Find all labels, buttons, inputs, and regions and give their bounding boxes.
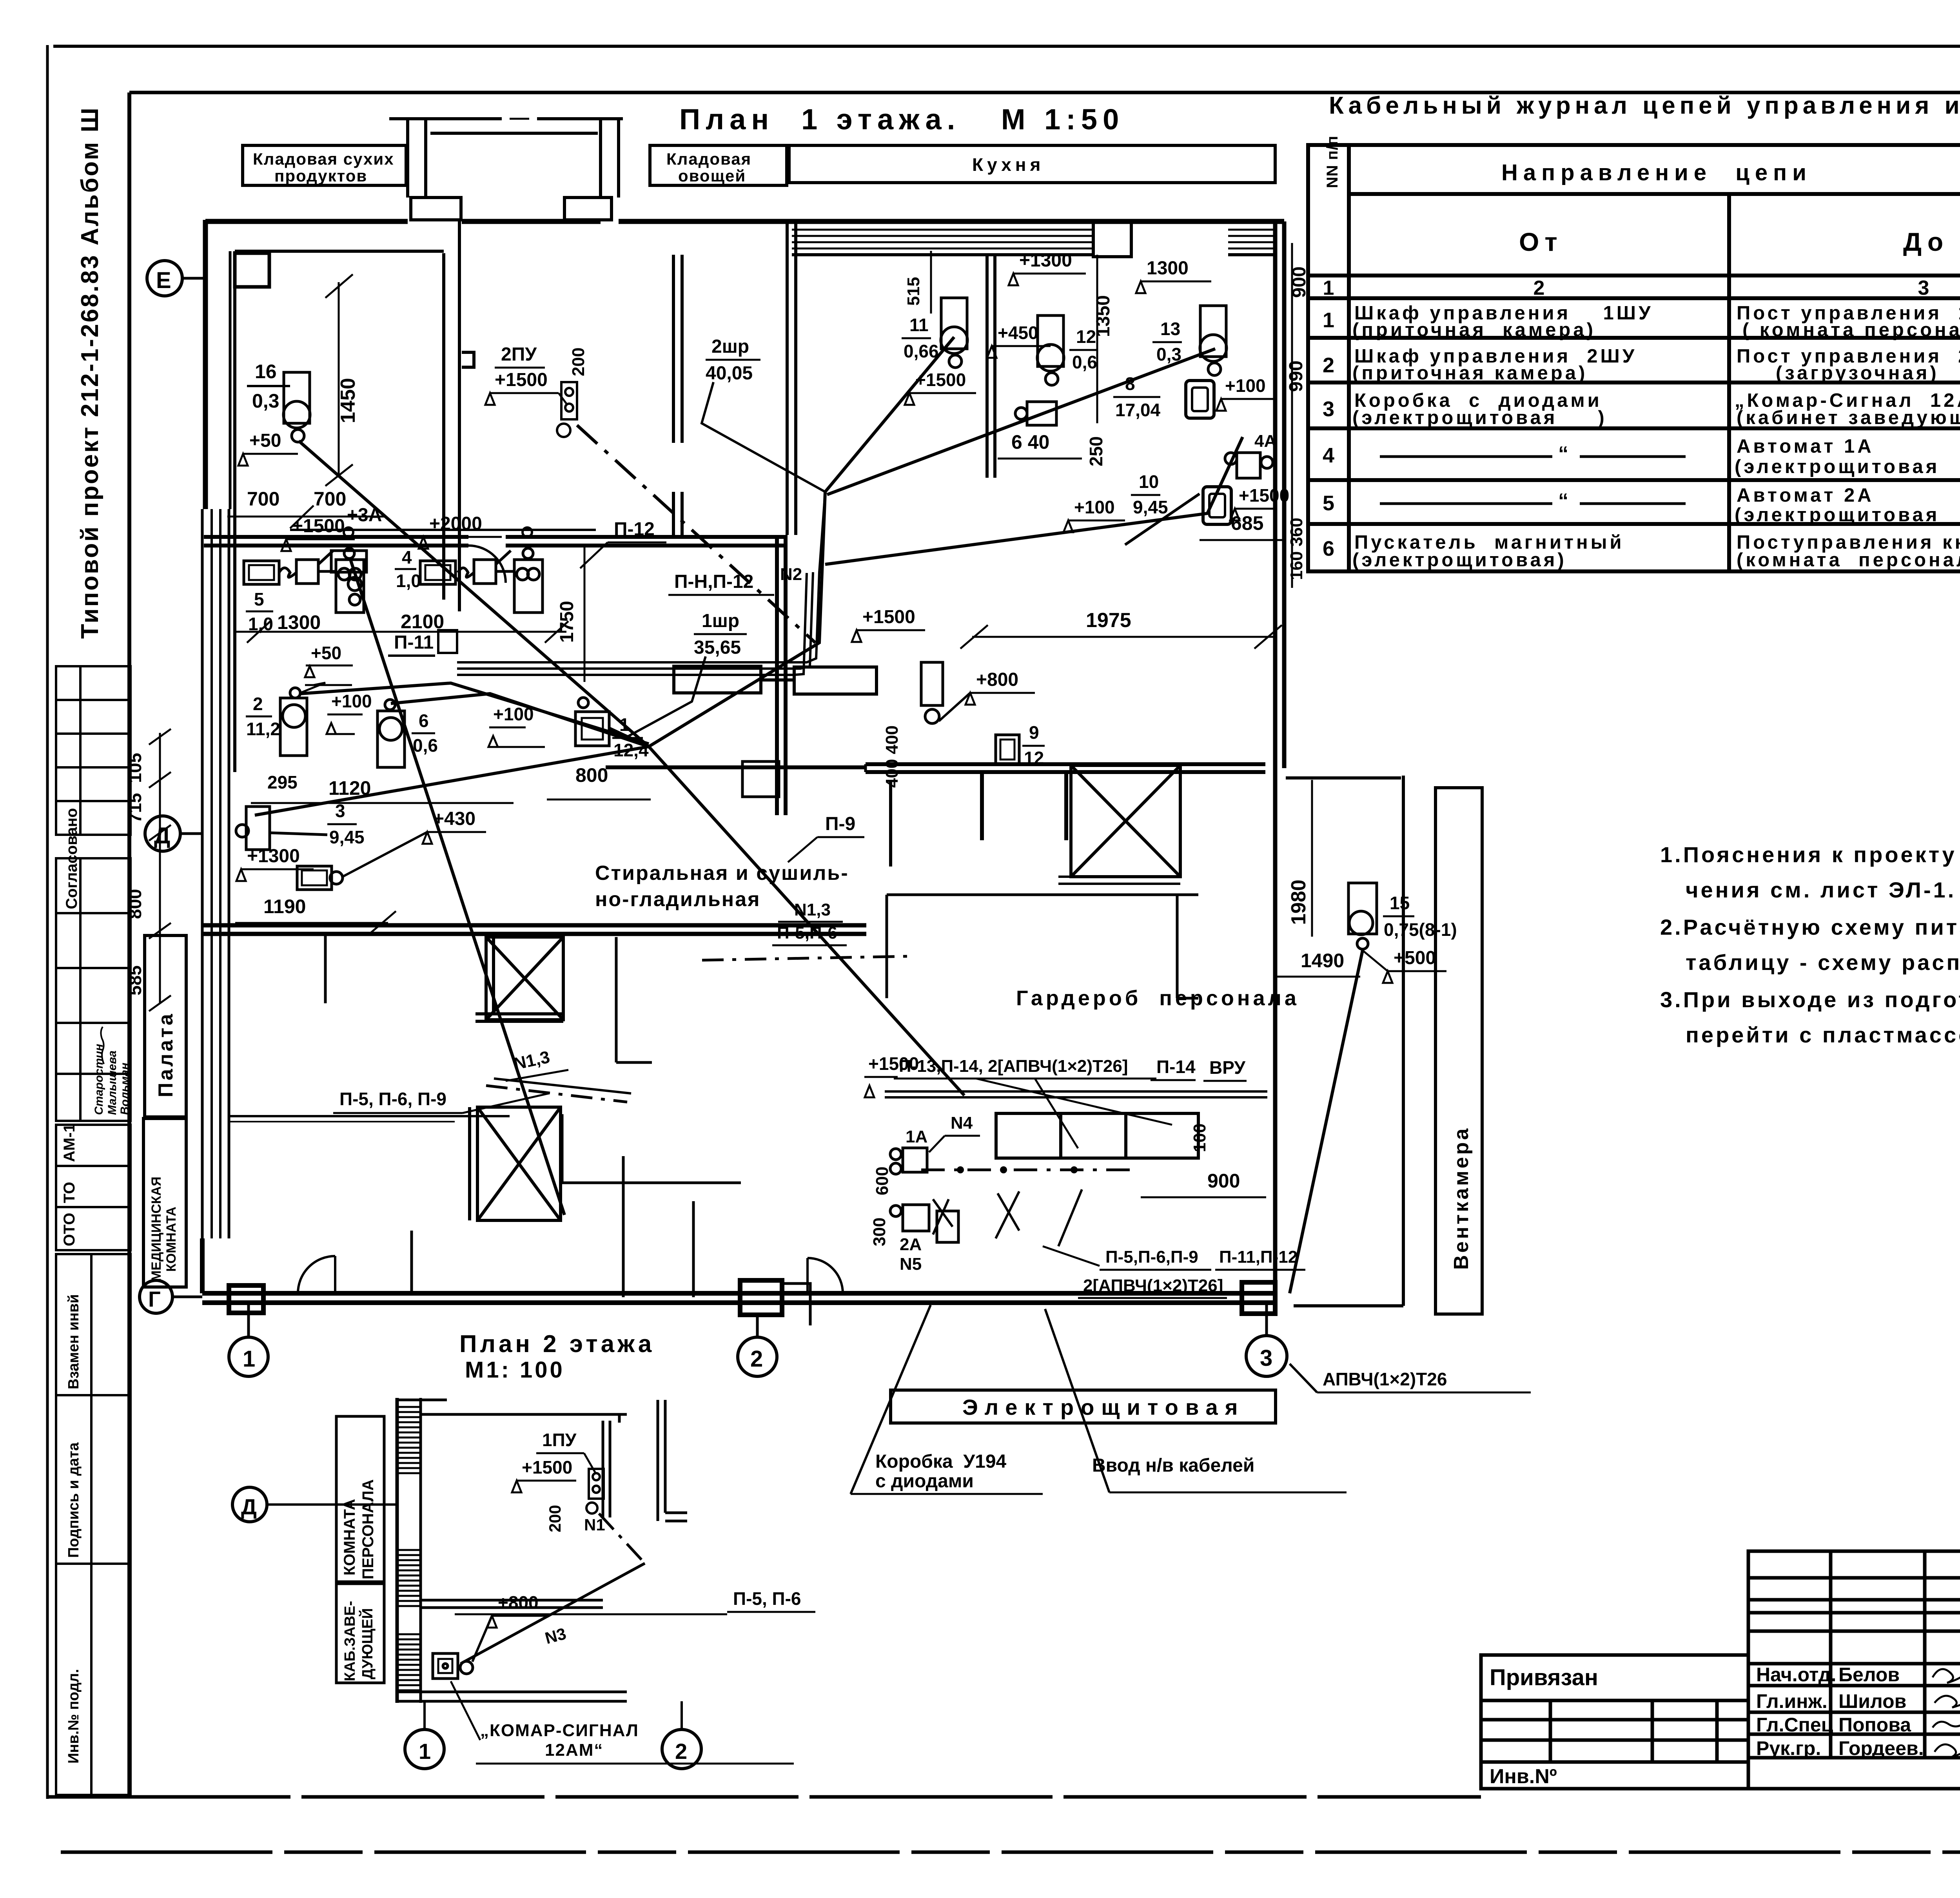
wall: стиральная room bottom wall (202, 925, 866, 934)
svg-text:800: 800 (125, 889, 145, 919)
svg-text:Д: Д (241, 1494, 257, 1519)
svg-text:П-11,П-12: П-11,П-12 (1219, 1247, 1298, 1267)
wire: bottom dashed trim line (61, 1851, 1960, 1854)
svg-text:+500: +500 (1394, 948, 1436, 968)
svg-text:+800: +800 (498, 1592, 539, 1613)
svg-text:(электрощитовая ): (электрощитовая ) (1735, 504, 1960, 526)
svg-text:ДУЮЩЕЙ: ДУЮЩЕЙ (358, 1608, 376, 1679)
svg-text:П-14: П-14 (1156, 1057, 1196, 1077)
socket device at 880 2215 (297, 866, 343, 890)
svg-text:Белов: Белов (1838, 1664, 1900, 1686)
label: table data rows (1352, 303, 1960, 571)
svg-text:400 400: 400 400 (882, 725, 902, 788)
svg-text:1,0: 1,0 (396, 571, 421, 591)
wire: cable from motor16 to junction (255, 441, 964, 1215)
svg-text:4А: 4А (1254, 431, 1276, 451)
node: grid circle 3 bottom (1246, 1336, 1287, 1376)
svg-text:Гл.Спец: Гл.Спец (1756, 1714, 1833, 1736)
svg-text:Рук.гр.: Рук.гр. (1756, 1737, 1821, 1759)
CABLE JOURNAL TABLE (1308, 92, 1960, 571)
label: room Палата (145, 935, 186, 1117)
svg-text:(электрощитовая): (электрощитовая) (1352, 549, 1567, 571)
svg-text:Коробка У194: Коробка У194 (875, 1451, 1007, 1472)
svg-text:585: 585 (125, 965, 145, 995)
svg-text:Гордеев.: Гордеев. (1838, 1737, 1924, 1759)
svg-text:2.Расчётную схему питающих с: 2.Расчётную схему питающих сетей и расче… (1660, 915, 1960, 939)
svg-text:0,6: 0,6 (413, 735, 438, 756)
label: sidebar handwriting (101, 1027, 104, 1064)
TITLE BLOCK (1481, 1551, 1960, 1821)
svg-text:12,4: 12,4 (613, 740, 649, 760)
svg-text:6 40: 6 40 (1011, 431, 1049, 453)
node: device 1ПУ (586, 1469, 604, 1514)
node: ventilation shaft X1 (475, 937, 563, 1021)
device 3/9,45 (236, 807, 270, 850)
svg-text:715 105: 715 105 (125, 753, 145, 823)
svg-text:П-5,П-6: П-5,П-6 (777, 923, 837, 943)
svg-text:700: 700 (247, 488, 279, 510)
svg-text:990: 990 (1286, 361, 1307, 392)
node: ventilation shaft X3 гардероб (1058, 765, 1180, 884)
svg-text:перейти с пластмассовых тру: перейти с пластмассовых труб на стальные… (1686, 1022, 1960, 1047)
wire: sidebar stamp boxes (56, 666, 131, 1795)
svg-text:АПВЧ(1×2)Т26: АПВЧ(1×2)Т26 (1323, 1369, 1447, 1389)
svg-text:700: 700 (314, 488, 346, 510)
svg-text:1.Пояснения к проекту и ус: 1.Пояснения к проекту и условные обозна- (1660, 842, 1960, 867)
wire: x marks on cable (933, 1189, 1082, 1246)
svg-text:1: 1 (619, 714, 630, 735)
svg-text:0,66: 0,66 (904, 341, 939, 361)
svg-text:2: 2 (253, 694, 263, 714)
node: device 2ПУ (557, 382, 577, 437)
wire: sheet left border (46, 45, 49, 1799)
svg-text:МЕДИЦИНСКАЯ: МЕДИЦИНСКАЯ (149, 1177, 164, 1282)
wall: room E inner lines (235, 221, 474, 772)
wire: dash dot bundle bottom left (486, 1086, 627, 1102)
wire: cable bundle П-11 (457, 492, 825, 675)
svg-text:Кладовая: Кладовая (666, 150, 751, 168)
svg-text:АМ-1: АМ-1 (61, 1124, 78, 1162)
svg-text:+3А: +3А (347, 505, 382, 526)
wall: bottom exterior wall (202, 1238, 1275, 1325)
гардероб: 15 device (1348, 883, 1377, 949)
svg-text:0,3: 0,3 (1156, 344, 1181, 364)
svg-text:П-11: П-11 (394, 632, 434, 653)
node: device 4A (1225, 453, 1273, 478)
wire: sheet top border (53, 45, 1960, 48)
svg-text:“: “ (1558, 442, 1568, 465)
node: grid circle 2 plan2 (662, 1729, 701, 1769)
node: Комар-Сигнал device (433, 1653, 473, 1679)
svg-text:5: 5 (254, 589, 264, 609)
node: device 1/12,4 (575, 698, 609, 746)
svg-text:1: 1 (1323, 308, 1334, 332)
svg-text:+1500: +1500 (495, 370, 548, 390)
svg-text:Кладовая сухих: Кладовая сухих (253, 150, 394, 168)
svg-text:+1300: +1300 (1019, 250, 1072, 271)
label: room box Кухня (789, 145, 1275, 183)
svg-text:3: 3 (1323, 397, 1334, 421)
svg-text:Гл.инж.: Гл.инж. (1756, 1690, 1828, 1712)
svg-text:200: 200 (546, 1505, 564, 1532)
svg-text:1А: 1А (906, 1127, 927, 1146)
svg-text:1: 1 (419, 1739, 431, 1764)
svg-text:NN п/п: NN п/п (1324, 136, 1341, 188)
svg-text:Типовой проект 212-1-268.83 А: Типовой проект 212-1-268.83 Альбом Ш (76, 106, 103, 639)
svg-text:От: От (1519, 227, 1563, 256)
svg-text:+1500: +1500 (915, 370, 966, 390)
motor 6/0,6 (377, 700, 405, 767)
svg-text:Нач.отд.: Нач.отд. (1756, 1664, 1836, 1686)
svg-text:1190: 1190 (263, 896, 306, 917)
svg-text:+800: +800 (976, 669, 1018, 690)
svg-text:13: 13 (1160, 319, 1180, 339)
svg-text:6: 6 (419, 711, 429, 731)
svg-text:1490: 1490 (1301, 950, 1344, 972)
svg-text:2[АПВЧ(1×2)Т26]: 2[АПВЧ(1×2)Т26] (1083, 1276, 1223, 1295)
wall: corridor lower wall right part (864, 764, 867, 772)
svg-text:5: 5 (1323, 491, 1334, 515)
svg-text:10: 10 (1139, 471, 1159, 492)
wire: right dimension line (1291, 243, 1293, 588)
svg-text:6: 6 (1323, 537, 1334, 560)
svg-text:35,65: 35,65 (694, 637, 741, 658)
svg-text:Инв.Nº: Инв.Nº (1490, 1765, 1557, 1788)
svg-text:(электрощитовая ): (электрощитовая ) (1735, 456, 1960, 477)
node: corridor duct boxes (674, 666, 891, 867)
svg-text:12АМ“: 12АМ“ (545, 1740, 603, 1760)
svg-text:+1300: +1300 (247, 846, 300, 867)
node: grid circle Д plan2 (232, 1487, 267, 1522)
wire: dash dot plan2 (599, 1514, 645, 1563)
wall: corridor walls (204, 535, 1265, 840)
label: signatures (1933, 1666, 1960, 1757)
wire: kitchen diagonal cables (825, 337, 1243, 564)
svg-text:ОТО: ОТО (61, 1213, 78, 1246)
svg-text:Кухня: Кухня (972, 154, 1044, 175)
svg-text:+1500: +1500 (868, 1053, 919, 1074)
svg-text:+1500: +1500 (1239, 485, 1289, 506)
svg-text:+1500: +1500 (862, 607, 915, 627)
wire: inner frame left vertical (127, 92, 131, 1797)
svg-text:3.При выходе из подготовки: 3.При выходе из подготовки пола следует (1660, 987, 1960, 1012)
label: Каб заведующей box (336, 1584, 384, 1683)
svg-text:Вольман: Вольман (118, 1063, 131, 1115)
svg-text:4: 4 (1323, 444, 1334, 467)
svg-text:1980: 1980 (1287, 879, 1310, 925)
svg-text:1120: 1120 (328, 777, 371, 799)
svg-text:(кабинет заведующен): (кабинет заведующен) (1737, 407, 1960, 428)
svg-text:+100: +100 (493, 704, 534, 724)
svg-text:15: 15 (1390, 893, 1410, 913)
svg-text:17,04: 17,04 (1115, 400, 1161, 420)
svg-text:П-5, П-6: П-5, П-6 (733, 1588, 801, 1609)
svg-text:Венткамера: Венткамера (1450, 1126, 1473, 1270)
wall: partial wall mid left (229, 1115, 510, 1117)
wire: dashdot cable to П-11 (577, 425, 815, 643)
svg-text:1шр: 1шр (702, 611, 739, 631)
rounded device 8/17,04 (1186, 381, 1214, 418)
svg-text:(загрузочная): (загрузочная) (1776, 363, 1939, 384)
svg-text:План 2 этажа: План 2 этажа (459, 1331, 655, 1358)
svg-text:План 1 этажа. М 1:50: План 1 этажа. М 1:50 (679, 103, 1124, 136)
PLAN 2 (232, 1331, 815, 1769)
svg-text:12: 12 (1076, 326, 1096, 347)
label: row 4 and 5 ditto dashes col2 (1380, 457, 1686, 504)
svg-text:ТО: ТО (61, 1182, 78, 1203)
svg-text:2А: 2А (900, 1235, 922, 1254)
node: grid circle E (147, 261, 182, 296)
rounded device 10/9,45 (1203, 487, 1231, 524)
wall: plan2 left wall hatched (397, 1398, 421, 1703)
svg-text:КОМНАТА: КОМНАТА (164, 1207, 179, 1272)
svg-text:600: 600 (873, 1167, 892, 1195)
svg-text:0,6: 0,6 (1072, 352, 1097, 372)
svg-text:N2: N2 (780, 565, 802, 584)
wall: main top exterior wall (205, 219, 1284, 224)
svg-text:1ПУ: 1ПУ (542, 1430, 577, 1450)
node: device 1A 2A (890, 1148, 958, 1242)
node: device 3A (331, 551, 367, 605)
svg-text:Электрощитовая: Электрощитовая (962, 1395, 1245, 1419)
svg-text:300: 300 (870, 1218, 889, 1246)
svg-text:2ПУ: 2ПУ (501, 344, 537, 365)
node: grid circle Д (145, 816, 180, 851)
svg-text:Ввод н/в кабелей: Ввод н/в кабелей (1092, 1455, 1254, 1476)
svg-text:Направление цепи: Направление цепи (1501, 160, 1812, 185)
svg-text:„КОМАР-СИГНАЛ: „КОМАР-СИГНАЛ (480, 1721, 639, 1740)
wall: plan2 top walls (397, 1400, 687, 1701)
svg-text:Согласовано: Согласовано (63, 808, 80, 909)
label: room box Кладовая сухих продуктов (243, 145, 406, 185)
NOTES (1660, 842, 1960, 1047)
svg-text:ВРУ: ВРУ (1209, 1057, 1246, 1078)
svg-text:Привязан: Привязан (1490, 1665, 1598, 1690)
label: dim 1980 vertical (1311, 780, 1313, 937)
svg-text:9: 9 (1029, 722, 1039, 743)
svg-text:800: 800 (575, 764, 608, 786)
svg-text:3: 3 (1918, 277, 1929, 299)
LEFT SIDEBAR (56, 106, 131, 1795)
svg-text:чения см. лист ЭЛ-1.: чения см. лист ЭЛ-1. (1686, 877, 1956, 902)
svg-text:+50: +50 (249, 430, 281, 451)
svg-text:2: 2 (675, 1739, 687, 1764)
svg-text:0,75(8-1): 0,75(8-1) (1384, 919, 1457, 940)
svg-text:Палата: Палата (154, 1012, 177, 1097)
label: table headers (1501, 160, 1960, 256)
svg-text:(приточная камера): (приточная камера) (1352, 319, 1596, 341)
svg-text:1975: 1975 (1086, 609, 1131, 632)
svg-text:Инв.№ подл.: Инв.№ подл. (65, 1669, 82, 1764)
svg-text:4: 4 (402, 547, 412, 567)
svg-text:“: “ (1558, 489, 1568, 512)
node: grid circle 1 bottom (229, 1337, 268, 1376)
svg-text:40,05: 40,05 (706, 363, 753, 384)
svg-text:2шр: 2шр (711, 336, 749, 357)
door arcs (298, 546, 843, 1293)
PLAN 1 (125, 103, 1531, 1494)
wall: right exterior wall (1275, 221, 1284, 1297)
label: dim 1450 vertical (338, 282, 340, 476)
svg-text:+450: +450 (998, 323, 1038, 343)
node: ВРУ cabinet (996, 1113, 1198, 1158)
svg-text:Старостин: Старостин (93, 1044, 105, 1115)
svg-text:0,3: 0,3 (252, 390, 279, 412)
label: room box Кладовая овощей (650, 145, 787, 185)
svg-text:овощей: овощей (678, 167, 746, 185)
svg-text:1300: 1300 (1147, 258, 1189, 279)
svg-text:(комната персонала): (комната персонала) (1737, 549, 1960, 571)
svg-text:+100: +100 (331, 691, 372, 711)
svg-text:8: 8 (1125, 373, 1135, 394)
motor 12/0,6 (1037, 315, 1064, 385)
svg-text:П-5,П-6,П-9: П-5,П-6,П-9 (1105, 1247, 1198, 1267)
svg-text:Кабельный журнал цепей управле: Кабельный журнал цепей управления и сигн… (1329, 92, 1960, 119)
svg-text:2: 2 (1323, 353, 1334, 377)
svg-text:П-12: П-12 (614, 519, 655, 540)
svg-text:900: 900 (1289, 266, 1310, 298)
svg-text:2: 2 (1534, 277, 1545, 299)
svg-text:100: 100 (1190, 1124, 1209, 1152)
wall: above ВРУ (885, 1090, 1267, 1093)
svg-text:+430: +430 (433, 809, 475, 829)
svg-text:ПЕРСОНАЛА: ПЕРСОНАЛА (359, 1479, 377, 1579)
svg-text:с диодами: с диодами (875, 1471, 974, 1492)
label: Комната персонала box (336, 1416, 384, 1582)
wall: гардероб partials (562, 895, 1198, 1297)
svg-text:До: До (1903, 227, 1949, 256)
wire: cable above corridor wall (290, 529, 596, 531)
washers row: socket + switch + dryer groups (244, 561, 279, 584)
motor 11/0,66 (941, 298, 967, 368)
svg-text:П-13,П-14, 2[АПВЧ(1×2)Т26]: П-13,П-14, 2[АПВЧ(1×2)Т26] (899, 1057, 1128, 1076)
wall: стиральная partial walls bottom (325, 934, 412, 1293)
svg-text:П-9: П-9 (825, 814, 855, 834)
node: grid circle 1 plan2 (405, 1729, 444, 1769)
svg-text:Взамен инвй: Взамен инвй (65, 1294, 82, 1389)
svg-text:(электрощитовая ): (электрощитовая ) (1352, 407, 1607, 428)
svg-text:М1: 100: М1: 100 (465, 1357, 565, 1383)
motor 16/0,3 (283, 372, 310, 442)
svg-text:( комната персонала): ( комната персонала) (1742, 319, 1960, 341)
svg-text:Е: Е (156, 268, 171, 293)
svg-text:Шилов: Шилов (1838, 1690, 1906, 1712)
label: room Медицинская комната (143, 1118, 186, 1287)
svg-text:N4: N4 (951, 1113, 973, 1133)
svg-text:16: 16 (255, 361, 277, 383)
svg-text:N5: N5 (900, 1254, 922, 1274)
svg-text:N1,3: N1,3 (794, 900, 831, 919)
svg-text:+1500: +1500 (522, 1457, 572, 1477)
svg-text:+100: +100 (1225, 375, 1266, 396)
svg-text:900: 900 (1207, 1170, 1240, 1192)
svg-text:9,45: 9,45 (329, 827, 365, 847)
svg-text:200: 200 (569, 348, 588, 376)
svg-text:11,2: 11,2 (246, 719, 280, 739)
svg-text:3: 3 (1260, 1345, 1272, 1371)
svg-text:продуктов: продуктов (274, 167, 367, 185)
node: device 9/12 (921, 662, 1019, 764)
label: Электрощитовая box (891, 1390, 1276, 1423)
svg-text:12: 12 (1024, 748, 1044, 768)
svg-text:295: 295 (267, 772, 298, 792)
wire: cable to 10 device (1125, 494, 1200, 545)
svg-text:Автомат 1А: Автомат 1А (1737, 436, 1874, 457)
svg-text:П-Н,П-12: П-Н,П-12 (674, 571, 753, 592)
svg-text:1: 1 (1323, 277, 1334, 299)
wall: left exterior wall (202, 220, 230, 1238)
label: column numbers row (1323, 277, 1960, 299)
wire: stair shaft top (389, 119, 623, 220)
svg-text:Автомат 2А: Автомат 2А (1737, 485, 1874, 506)
svg-text:250: 250 (1086, 436, 1106, 466)
svg-text:Г: Г (148, 1287, 161, 1311)
svg-text:но-гладильная: но-гладильная (595, 888, 760, 911)
node: ventilation shaft X2 (470, 1107, 561, 1220)
svg-text:+2000: +2000 (429, 513, 482, 534)
svg-text:1: 1 (243, 1346, 255, 1372)
wall: кладовая овощей dividers (673, 221, 995, 535)
svg-text:Подпись и дата: Подпись и дата (65, 1442, 82, 1558)
svg-text:515: 515 (904, 277, 923, 306)
svg-text:П-5, П-6, П-9: П-5, П-6, П-9 (339, 1089, 446, 1109)
node: grid circle Г (140, 1280, 172, 1313)
svg-text:Гардероб персонала: Гардероб персонала (1016, 986, 1299, 1010)
node: device box kitchen (1015, 402, 1056, 425)
wire: top inner horizontal (129, 91, 1960, 94)
svg-text:+50: +50 (311, 643, 341, 663)
motor 13/0,3 (1200, 306, 1227, 375)
svg-text:КОМНАТА: КОМНАТА (341, 1499, 358, 1575)
node: grid circle 2 bottom (738, 1337, 777, 1376)
svg-text:+100: +100 (1074, 497, 1115, 517)
svg-text:+1500: +1500 (292, 516, 345, 537)
svg-text:1300: 1300 (277, 611, 321, 633)
svg-text:9,45: 9,45 (1133, 497, 1168, 517)
svg-text:3: 3 (335, 801, 345, 821)
svg-text:таблицу - схему распределител: таблицу - схему распределительной сети с… (1686, 950, 1960, 975)
label: numeric columns (1323, 306, 1960, 560)
wire: bottom line left of title block (47, 1795, 1481, 1799)
svg-text:2: 2 (750, 1346, 763, 1372)
motor 2/11,2 (280, 688, 307, 756)
svg-text:КАБ.ЗАВЕ-: КАБ.ЗАВЕ- (342, 1601, 358, 1681)
svg-text:Малышева: Малышева (106, 1051, 119, 1115)
svg-text:Стиральная и сушиль-: Стиральная и сушиль- (595, 862, 849, 885)
svg-text:160 360: 160 360 (1287, 518, 1306, 580)
label: Венткамера block (1286, 776, 1482, 1314)
wire: cable 15 to circle3 (1290, 950, 1363, 1293)
wire: dash dot cable row (921, 1169, 1137, 1171)
svg-text:(приточная камера): (приточная камера) (1352, 363, 1588, 384)
svg-text:1450: 1450 (337, 378, 359, 423)
svg-text:685: 685 (1231, 512, 1263, 534)
wall: kitchen window band (792, 230, 1274, 248)
svg-text:Попова: Попова (1838, 1714, 1911, 1736)
svg-text:11: 11 (909, 315, 929, 335)
